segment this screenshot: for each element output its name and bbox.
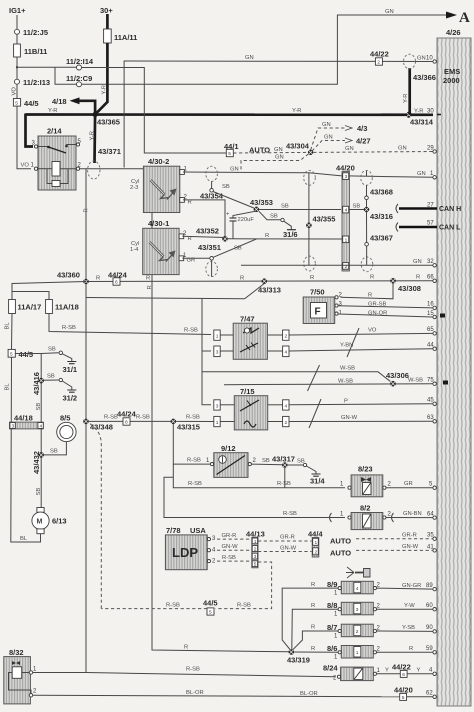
- svg-text:GN: GN: [413, 259, 422, 265]
- svg-text:R-SB: R-SB: [136, 415, 150, 421]
- wire GN net to EMS pin 10: [124, 61, 433, 168]
- svg-text:11A/18: 11A/18: [55, 303, 79, 312]
- ignition coil 4/30-1: [130, 219, 187, 275]
- arrow A (off-page to A): [446, 10, 470, 26]
- svg-text:63: 63: [427, 415, 434, 421]
- connector ellipse below 43/371: [88, 161, 100, 179]
- svg-text:Y-R: Y-R: [90, 131, 96, 140]
- washer nozzle icon: [346, 567, 370, 578]
- svg-text:4/18: 4/18: [52, 97, 67, 106]
- fuse 11A/17: [9, 300, 16, 314]
- svg-text:SB: SB: [262, 458, 270, 464]
- pin 29: [433, 150, 436, 153]
- svg-text:2: 2: [356, 629, 359, 635]
- svg-text:R: R: [188, 236, 192, 242]
- module 7/50 fuel system relay: [303, 288, 342, 324]
- wire SB 9/12 pin2 to 43/317: [251, 463, 282, 466]
- wire R from 2/14 pin 2: [80, 168, 125, 170]
- pin 59: [433, 651, 436, 654]
- svg-text:3: 3: [216, 403, 219, 409]
- svg-text:3: 3: [12, 424, 15, 430]
- svg-text:R: R: [188, 200, 192, 206]
- module 7/47 idle air valve: [214, 315, 289, 360]
- svg-text:10: 10: [426, 56, 433, 62]
- wire GN from 11/2:I14 to 44/1: [82, 68, 227, 154]
- pin 41: [433, 549, 436, 552]
- wire 43/366 Y-R: [408, 68, 411, 115]
- svg-text:GN: GN: [417, 56, 426, 62]
- wire 43/355 vertical: [308, 173, 310, 265]
- switch to ground 31/6: [259, 211, 281, 220]
- svg-text:8/9: 8/9: [327, 580, 337, 589]
- heater icon: [240, 343, 258, 352]
- ground 31/1: [67, 362, 76, 364]
- pin 75: [433, 382, 436, 385]
- wire GN-BN 8/2 pin2 to EMS 64 with break: [386, 517, 433, 519]
- svg-text:64: 64: [427, 512, 434, 518]
- wire GR 4/30-1 pin1 to 43/351: [182, 257, 210, 259]
- svg-text:5: 5: [228, 151, 231, 157]
- svg-text:7/47: 7/47: [240, 315, 255, 324]
- svg-text:R-SB: R-SB: [166, 602, 180, 608]
- svg-text:43/368: 43/368: [370, 188, 393, 197]
- arrow 4/18 branch: [79, 101, 95, 115]
- dashed wire GN to splice 43/304: [233, 151, 307, 154]
- svg-text:BL: BL: [20, 536, 28, 542]
- wire SB chain from 44/5: [15, 354, 41, 508]
- svg-text:CAN L: CAN L: [439, 225, 461, 232]
- dashed R-SB LDP pin2: [217, 560, 251, 562]
- svg-text:44/5: 44/5: [24, 99, 39, 108]
- valve 8/2: [348, 504, 386, 530]
- ground 31/2: [67, 390, 76, 392]
- spark symbol: [151, 180, 165, 195]
- injector 8/8: [327, 601, 381, 618]
- pin 63: [433, 420, 436, 423]
- svg-text:EMS: EMS: [444, 67, 460, 76]
- connector 11/2:I14: [77, 65, 82, 70]
- svg-text:8/5: 8/5: [60, 414, 70, 423]
- switch to ground 31/1: [41, 352, 59, 355]
- splice 43/315: [171, 419, 177, 425]
- svg-text:43/352: 43/352: [196, 227, 219, 236]
- svg-text:31/1: 31/1: [63, 365, 78, 374]
- svg-text:43/416: 43/416: [32, 372, 41, 395]
- break marks (option slashes): [347, 328, 359, 357]
- svg-text:43/314: 43/314: [410, 118, 434, 127]
- switch contact: [38, 146, 49, 148]
- svg-text:5: 5: [402, 695, 405, 701]
- wire BL-OR 8/32 pin2 to 44/20 pin 5: [33, 695, 400, 697]
- thick bus Y-R horizontal: [26, 113, 434, 116]
- splice 43/316: [364, 207, 370, 213]
- ignition coil 4/30-2: [130, 157, 188, 213]
- svg-text:8/7: 8/7: [327, 623, 337, 632]
- wire R from 43/308 down to 7/50 pin 2: [341, 284, 394, 299]
- svg-text:2000: 2000: [443, 76, 460, 85]
- wire R-SB 43/348 to 43/315: [89, 420, 171, 422]
- svg-text:44/22: 44/22: [370, 50, 389, 59]
- wire GN-W 7/15 pin2 to EMS 63: [289, 420, 433, 422]
- svg-text:89: 89: [426, 583, 433, 589]
- svg-text:VO: VO: [368, 328, 377, 334]
- svg-text:GN: GN: [324, 135, 333, 141]
- svg-text:43/313: 43/313: [258, 286, 281, 295]
- svg-text:15: 15: [427, 311, 434, 317]
- wire R 4/30-2 pin2 to splice: [183, 200, 225, 236]
- svg-text:11A/17: 11A/17: [18, 303, 42, 312]
- wire SB to 44/20 pin 4: [259, 209, 341, 211]
- svg-text:LDP: LDP: [172, 545, 198, 560]
- wire R-SB from 11A/18 to 7/47 pin 1: [49, 314, 211, 335]
- svg-text:IG1+: IG1+: [9, 6, 26, 15]
- wire GN-OR 7/50 pin1 to EMS 15: [338, 314, 433, 317]
- svg-text:Y-R: Y-R: [48, 108, 57, 114]
- svg-text:5: 5: [10, 351, 13, 357]
- svg-text:4/3: 4/3: [357, 124, 367, 133]
- wire R fan to 8/8: [292, 609, 340, 649]
- svg-text:BL-OR: BL-OR: [186, 690, 204, 696]
- wire 8/5 to splice 43/432: [44, 442, 66, 455]
- svg-text:43/353: 43/353: [250, 198, 273, 207]
- splice 43/432: [38, 452, 44, 458]
- pin 60: [433, 608, 436, 611]
- splice 43/348: [83, 419, 89, 425]
- svg-text:Y-R: Y-R: [403, 94, 409, 103]
- wire down to 43/367: [366, 212, 368, 265]
- svg-text:43/315: 43/315: [177, 423, 200, 432]
- svg-text:W-SB: W-SB: [338, 378, 353, 384]
- svg-text:7/78: 7/78: [166, 526, 181, 535]
- svg-text:4/30-2: 4/30-2: [148, 157, 169, 166]
- svg-text:BL: BL: [5, 322, 11, 330]
- wire R-SB 43/317 down to 8/23 line: [284, 468, 286, 488]
- svg-text:43/306: 43/306: [386, 371, 409, 380]
- svg-text:11/2:I13: 11/2:I13: [23, 78, 50, 87]
- splice 43/355: [306, 223, 312, 229]
- thick wire 30+ feed Y-R: [95, 43, 107, 114]
- svg-text:R-SB: R-SB: [104, 415, 118, 421]
- svg-text:43/355: 43/355: [313, 215, 336, 224]
- injector 8/7: [327, 623, 381, 640]
- fuse 11B/11: [14, 44, 21, 57]
- wire R-SB from 43/315 drop to 8/23 pin 1: [173, 464, 345, 488]
- fuse 11A/18: [46, 300, 53, 314]
- svg-text:SB: SB: [48, 347, 56, 353]
- motor 6/13 washer pump: [32, 508, 67, 534]
- svg-text:43/351: 43/351: [198, 243, 221, 252]
- svg-text:44/5: 44/5: [19, 350, 34, 359]
- svg-text:3: 3: [254, 554, 257, 560]
- svg-text:GR-R: GR-R: [402, 532, 417, 538]
- pin 10: [433, 60, 436, 63]
- svg-text:2: 2: [315, 550, 318, 556]
- svg-text:35: 35: [427, 533, 434, 539]
- wire BL from 11A/17 down: [11, 314, 14, 350]
- svg-text:M: M: [37, 519, 43, 526]
- svg-text:GN-W: GN-W: [402, 544, 419, 550]
- svg-text:45: 45: [427, 398, 434, 404]
- svg-text:SB: SB: [222, 184, 230, 190]
- svg-text:30+: 30+: [100, 6, 113, 15]
- splice 43/317: [282, 462, 288, 468]
- svg-text:Y-R: Y-R: [102, 85, 108, 94]
- wire SB 43/351 up to R wire: [213, 239, 256, 257]
- svg-text:43/367: 43/367: [370, 234, 393, 243]
- svg-text:R-SB: R-SB: [186, 666, 200, 672]
- svg-text:F: F: [315, 307, 321, 318]
- svg-text:1-4: 1-4: [130, 247, 139, 253]
- wire R fan to 8/7: [293, 631, 340, 650]
- svg-text:R-SB: R-SB: [188, 481, 202, 487]
- svg-text:BL-OR: BL-OR: [300, 691, 318, 697]
- svg-text:5: 5: [254, 562, 257, 568]
- dashed GN-W 44/13 to 44/4 pin2: [258, 551, 312, 553]
- pin 89: [433, 587, 436, 590]
- pin 32: [433, 264, 436, 267]
- wire R fan to 8/9: [282, 588, 339, 649]
- svg-text:R-SB: R-SB: [62, 325, 76, 331]
- wire GR-SB 7/50 pin3 to EMS 16: [338, 306, 433, 308]
- ECU EMS 2000 module 4/26: [437, 28, 471, 706]
- svg-text:Y-R: Y-R: [292, 108, 301, 114]
- thick branch down to connector 43/371: [93, 114, 96, 163]
- svg-text:GR-SB: GR-SB: [368, 301, 386, 307]
- wire to A: GN net from 11/2:C9: [82, 9, 446, 84]
- switch to ground 31/2: [44, 379, 59, 381]
- pin 90: [433, 630, 436, 633]
- svg-text:CAN H: CAN H: [439, 206, 461, 213]
- svg-text:AUTO: AUTO: [330, 537, 351, 546]
- svg-text:44/5: 44/5: [203, 599, 218, 608]
- wire Y-BN 7/47 pin4 to EMS 44: [289, 349, 433, 351]
- svg-text:GN-GR: GN-GR: [402, 583, 421, 589]
- svg-text:31/2: 31/2: [63, 394, 78, 403]
- svg-text:11B/11: 11B/11: [24, 47, 47, 56]
- svg-text:W-SB: W-SB: [408, 377, 423, 383]
- svg-text:R: R: [409, 646, 413, 652]
- svg-text:29: 29: [427, 146, 434, 152]
- splice 43/308: [390, 278, 396, 284]
- svg-text:3: 3: [345, 174, 348, 180]
- pin 35: [433, 537, 436, 540]
- svg-text:BL: BL: [5, 383, 11, 391]
- pin 1: [433, 176, 436, 179]
- wire R down to 7/47 and 7/15 pin 3: [202, 298, 211, 404]
- resistor parallel: [47, 169, 52, 184]
- svg-text:GN-W: GN-W: [222, 544, 239, 550]
- svg-text:6: 6: [402, 672, 405, 678]
- wire P 7/15 pin4 to EMS 45: [289, 404, 433, 405]
- svg-text:5: 5: [15, 101, 18, 107]
- dashed branch GN down to coil wire: [241, 154, 309, 172]
- svg-text:60: 60: [426, 603, 433, 609]
- connector strip 44/20: [336, 164, 355, 272]
- svg-text:44/18: 44/18: [14, 414, 33, 423]
- pin 62: [433, 695, 436, 698]
- svg-text:SB: SB: [47, 374, 55, 380]
- svg-text:2: 2: [377, 60, 380, 66]
- svg-text:R: R: [147, 285, 153, 289]
- spark symbol: [150, 242, 164, 257]
- wire up to 43/368: [366, 185, 368, 207]
- svg-text:A: A: [459, 10, 470, 26]
- svg-text:43/365: 43/365: [97, 118, 120, 127]
- svg-text:8/6: 8/6: [327, 644, 337, 653]
- svg-text:1: 1: [216, 420, 219, 426]
- svg-text:GN: GN: [230, 167, 239, 173]
- svg-text:1: 1: [356, 650, 359, 656]
- svg-text:8/8: 8/8: [327, 601, 337, 610]
- splice 43/319: [289, 649, 295, 655]
- svg-text:2-3: 2-3: [130, 185, 138, 191]
- wire GN to EMS pin 32: [241, 264, 433, 266]
- dashed arrow to 4/3: [311, 128, 345, 150]
- svg-text:62: 62: [426, 691, 433, 697]
- svg-text:GR-R: GR-R: [222, 533, 237, 539]
- wire BL rail down left side: [11, 357, 41, 542]
- svg-text:Y-W: Y-W: [404, 603, 415, 609]
- connector ellipse on GN wire: [404, 54, 416, 69]
- junction 43/314: [406, 112, 412, 118]
- wire VO to 2/14 pin 1: [17, 106, 31, 169]
- svg-text:43/366: 43/366: [413, 73, 436, 82]
- connector 11/2:J5: [15, 29, 20, 34]
- svg-text:R: R: [416, 275, 420, 281]
- connector strip 44/13: [246, 530, 265, 568]
- CAN H stub wire: [399, 207, 437, 210]
- svg-text:GN: GN: [275, 155, 284, 161]
- svg-text:8/2: 8/2: [360, 504, 370, 513]
- svg-text:57: 57: [427, 221, 434, 227]
- dashed GN-W LDP pin4: [217, 549, 251, 551]
- svg-text:SB: SB: [353, 204, 361, 210]
- svg-text:6/13: 6/13: [52, 517, 67, 526]
- svg-text:R: R: [311, 582, 315, 588]
- svg-text:4: 4: [40, 424, 43, 430]
- svg-text:11/2:J5: 11/2:J5: [23, 28, 48, 37]
- svg-text:R-SB: R-SB: [187, 458, 201, 464]
- connector 44/5 pin 5 (lower): [8, 349, 15, 357]
- pin 66: [433, 279, 436, 282]
- svg-text:GN-W: GN-W: [280, 546, 297, 552]
- svg-text:W-SB: W-SB: [340, 366, 355, 372]
- svg-text:43/304: 43/304: [286, 142, 310, 151]
- svg-text:43/317: 43/317: [272, 455, 295, 464]
- svg-text:5: 5: [209, 610, 212, 616]
- svg-text:11A/11: 11A/11: [114, 33, 137, 42]
- wire GR 8/23 pin2 to EMS 5: [386, 487, 433, 489]
- connector boxes: [214, 330, 220, 340]
- connector ellipse on coil wire: [206, 166, 218, 181]
- svg-text:GN: GN: [274, 147, 283, 153]
- svg-text:7/50: 7/50: [310, 288, 325, 297]
- svg-text:GN: GN: [398, 146, 407, 152]
- svg-text:R: R: [368, 292, 372, 298]
- svg-text:43/354: 43/354: [200, 192, 224, 201]
- svg-text:11/2:C9: 11/2:C9: [66, 74, 92, 83]
- svg-text:11/2:I14: 11/2:I14: [66, 57, 94, 66]
- svg-text:1: 1: [216, 334, 219, 340]
- connector 44/5 pin 5: [13, 99, 20, 107]
- wire VO: [16, 84, 18, 98]
- splice 43/306: [390, 381, 396, 387]
- wire R branch from rail to 43/313: [86, 284, 264, 299]
- module 7/78 LDP (USA): [165, 526, 216, 570]
- svg-text:16: 16: [427, 302, 434, 308]
- svg-text:43/348: 43/348: [90, 423, 113, 432]
- svg-text:43/316: 43/316: [370, 212, 393, 221]
- svg-text:R-SB: R-SB: [222, 555, 236, 561]
- svg-text:Y: Y: [385, 668, 389, 674]
- svg-text:SB: SB: [270, 214, 278, 220]
- pin 64: [433, 516, 436, 519]
- wire R to 8/6: [294, 651, 339, 653]
- svg-text:43/371: 43/371: [98, 147, 121, 156]
- svg-text:32: 32: [427, 259, 434, 265]
- component 8/32: [4, 648, 37, 704]
- wire SB 43/354 to 43/353: [213, 192, 254, 209]
- injector 8/6: [327, 644, 381, 661]
- svg-text:P: P: [344, 398, 348, 404]
- wire R-SB to 7/15 pin 1: [176, 420, 214, 422]
- svg-text:66: 66: [427, 275, 434, 281]
- pin 16: [433, 306, 436, 309]
- heater 8/24: [323, 664, 381, 682]
- wire SB out of 44/20:4 to splice 43/316: [349, 209, 364, 211]
- wire GN coil 4/30-2 pin1 to EMS pin 1: [183, 172, 433, 177]
- svg-text:SB: SB: [36, 488, 42, 496]
- svg-text:R-SB: R-SB: [283, 511, 297, 517]
- svg-text:8/32: 8/32: [9, 648, 24, 657]
- injector 8/9: [327, 580, 381, 597]
- module 7/15: [214, 387, 289, 430]
- connector 44/4: [308, 530, 323, 558]
- wire to 11/2:I14: [17, 66, 77, 68]
- svg-text:43/308: 43/308: [398, 284, 421, 293]
- dashed GR-R LDP pin3 to 44/13: [217, 538, 251, 540]
- svg-text:43/432: 43/432: [32, 451, 41, 474]
- coil: [38, 168, 53, 170]
- svg-text:1: 1: [254, 539, 257, 545]
- splice 43/416: [38, 378, 44, 384]
- wire VO 7/47 pin2 to EMS 65: [289, 333, 433, 335]
- CAN L stub wire: [399, 226, 437, 229]
- svg-text:44/20: 44/20: [394, 685, 413, 694]
- svg-text:R-SB: R-SB: [277, 481, 291, 487]
- pin 15: [433, 315, 436, 318]
- svg-text:GN-OR: GN-OR: [368, 311, 387, 317]
- wire W-SB pair to splice 43/306: [202, 372, 391, 382]
- valve 8/23: [348, 465, 386, 497]
- junction 43/365: [93, 112, 98, 117]
- svg-text:R: R: [311, 646, 315, 652]
- svg-text:R: R: [311, 603, 315, 609]
- svg-text:44/24: 44/24: [117, 410, 137, 419]
- connector ellipse below 43/351: [211, 260, 213, 277]
- dashed GR-R 44/13 to 44/4 pin1: [258, 540, 312, 542]
- svg-text:8: 8: [125, 420, 128, 426]
- thick branch to 2/14 pin 3: [26, 114, 34, 147]
- svg-text:GR: GR: [404, 481, 413, 487]
- svg-text:Y: Y: [417, 668, 421, 674]
- svg-text:44: 44: [427, 343, 434, 349]
- svg-text:31/6: 31/6: [283, 230, 298, 239]
- svg-text:VO: VO: [12, 87, 18, 96]
- wire R splice to 44/20 pin 1: [228, 238, 341, 241]
- svg-text:Y-R: Y-R: [414, 109, 423, 115]
- svg-text:4/30-1: 4/30-1: [148, 219, 169, 228]
